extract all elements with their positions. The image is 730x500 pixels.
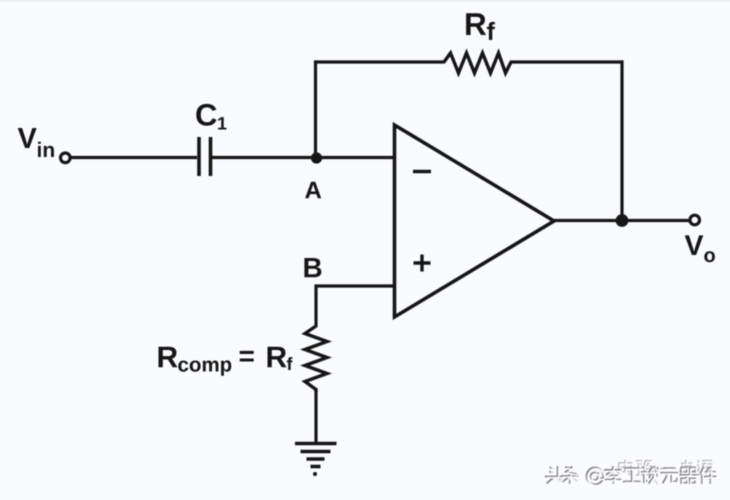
watermark light text 电路一点通 (619, 460, 712, 475)
op-amp U1 (395, 125, 555, 317)
ground (295, 442, 337, 446)
wire C1 to op-amp inverting input (212, 156, 394, 159)
wire Vin to C1 (71, 156, 197, 159)
terminal Vin (61, 153, 71, 163)
label Rf (466, 13, 495, 40)
label Vo (685, 235, 715, 262)
wire feedback down to output (620, 60, 623, 220)
node A junction dot (311, 152, 322, 163)
capacitor C1 (197, 137, 201, 176)
label B (304, 258, 321, 277)
terminal Vo (690, 215, 700, 225)
wire Rcomp to ground (314, 390, 317, 443)
wire op-amp output (554, 219, 689, 222)
wire node A up to feedback (314, 60, 317, 158)
op-amp minus sign (413, 170, 431, 173)
label Rcomp = Rf (159, 347, 293, 376)
label C1 (196, 104, 226, 130)
resistor Rcomp (305, 326, 327, 392)
watermark dark text 头条 @李工谈元器件 (546, 467, 716, 485)
wire B to op-amp noninverting input (316, 286, 394, 327)
op-amp plus sign (414, 261, 431, 264)
output node junction dot (616, 214, 629, 227)
wire feedback top right (510, 60, 624, 63)
label A (305, 182, 321, 199)
wire feedback top left (314, 60, 445, 63)
resistor Rf (444, 53, 511, 73)
label Vin (18, 128, 54, 157)
